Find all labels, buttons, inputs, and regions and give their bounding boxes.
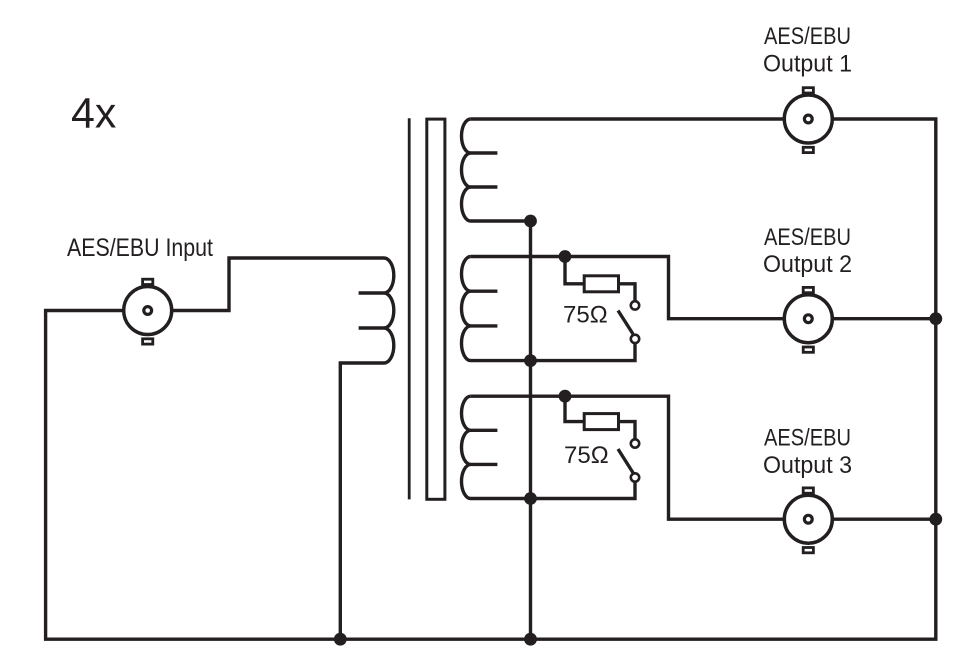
transformer core bar: [427, 119, 445, 499]
wire output 3: [471, 396, 936, 519]
switch S2 contacts: [631, 439, 639, 447]
wire output 2: [471, 257, 936, 319]
transformer secondary winding 3: [462, 396, 636, 498]
resistor R2 75 ohm: [584, 414, 618, 430]
wire tap for resistor R1: [565, 257, 584, 284]
transformer secondary winding 2: [462, 257, 636, 361]
junction dot common line / bottom rail: [524, 633, 537, 646]
svg-text:4x: 4x: [71, 90, 116, 138]
junction dot tap resistor R2: [559, 390, 572, 403]
transformer secondary winding 1: [462, 119, 531, 221]
junction dot output 3 / right rail: [929, 513, 942, 526]
svg-text:Output 2: Output 2: [763, 251, 852, 278]
switch S2 lever: [618, 449, 634, 474]
svg-text:AES/EBU Input: AES/EBU Input: [67, 234, 213, 262]
svg-text:AES/EBU: AES/EBU: [764, 23, 851, 50]
svg-text:75Ω: 75Ω: [563, 302, 608, 329]
transformer core line: [408, 118, 411, 499]
switch S1 lever: [618, 311, 633, 335]
junction dot secondary 2 bottom: [524, 354, 537, 367]
wire main outer loop (input, left rail, bottom rail, right rail, output-1 top wire): [46, 119, 936, 639]
BNC connector input: [124, 279, 172, 344]
BNC connector output 1: [784, 88, 832, 153]
resistor R1 75 ohm: [584, 276, 618, 292]
svg-text:Output 1: Output 1: [763, 51, 852, 78]
switch S1 contacts: [631, 301, 639, 309]
wire tap for resistor R2: [565, 396, 584, 421]
junction dot output 2 / right rail: [929, 312, 942, 325]
svg-text:AES/EBU: AES/EBU: [764, 224, 851, 251]
svg-text:Output 3: Output 3: [763, 452, 852, 479]
BNC connector output 3: [784, 488, 832, 553]
svg-text:AES/EBU: AES/EBU: [764, 425, 851, 452]
junction dot tap resistor R1: [559, 250, 572, 263]
junction dot secondary 1 bottom: [524, 215, 537, 228]
transformer primary winding: [340, 258, 394, 639]
wire resistor R2 to switch S2: [619, 422, 636, 444]
junction dot secondary 3 bottom: [524, 492, 537, 505]
BNC connector output 2: [784, 287, 832, 352]
junction dot primary return / bottom rail: [334, 633, 347, 646]
wire resistor R1 to switch S1: [619, 284, 636, 306]
svg-text:75Ω: 75Ω: [564, 442, 609, 469]
wire secondary common line: [529, 221, 532, 639]
